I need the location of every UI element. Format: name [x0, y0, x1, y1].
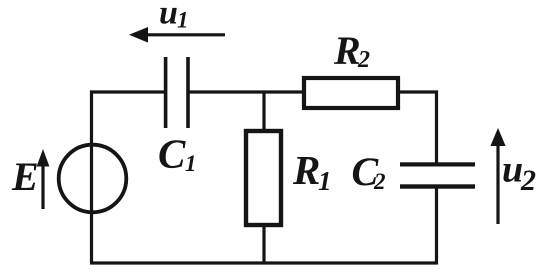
wire: left vertical branch through source: [90, 91, 93, 264]
svg-text:1: 1: [177, 8, 189, 33]
svg-text:u: u: [502, 148, 523, 190]
wire: top-left horizontal from left corner to C1 left plate: [90, 90, 167, 93]
arrow u2 (points up): [490, 128, 505, 224]
label C2: [352, 149, 386, 194]
label R1: [292, 147, 332, 196]
capacitor C1 right plate: [186, 57, 190, 128]
wire: top middle from C1 right plate to R2 left edge: [187, 90, 303, 93]
svg-text:2: 2: [373, 169, 386, 194]
wire: right vertical below C2 to bottom corner: [435, 188, 438, 265]
label u2: [502, 148, 536, 197]
resistor R1 body: [246, 131, 281, 225]
label R2: [333, 28, 370, 73]
source E circle: [59, 145, 127, 213]
svg-text:2: 2: [520, 164, 536, 197]
label u1: [159, 0, 189, 33]
svg-text:1: 1: [185, 151, 197, 176]
svg-text:R: R: [333, 28, 361, 73]
wire: R1 bottom lead down to bottom wire: [262, 226, 265, 263]
svg-text:C: C: [158, 130, 186, 176]
svg-text:1: 1: [318, 166, 332, 196]
svg-text:R: R: [292, 147, 320, 193]
wire: bottom horizontal: [90, 261, 438, 264]
wire: top-right from R2 right edge to right corner and down: [399, 92, 437, 163]
svg-text:E: E: [11, 154, 39, 199]
label C1: [158, 130, 197, 176]
arrow E (points up): [37, 149, 50, 209]
capacitor C2 bottom plate: [400, 184, 475, 188]
arrow u1 (points left): [129, 27, 225, 43]
wire: R1 branch from top wire down to R1: [262, 92, 265, 130]
capacitor C2 top plate: [400, 162, 475, 166]
resistor R2 body: [304, 78, 398, 108]
svg-text:u: u: [159, 0, 178, 32]
capacitor C1 left plate: [164, 57, 168, 128]
svg-text:2: 2: [357, 47, 370, 73]
